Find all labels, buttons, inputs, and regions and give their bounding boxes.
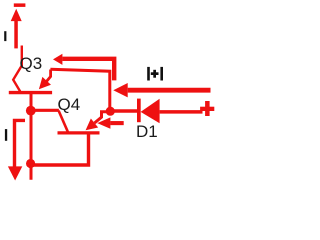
label D1	[136, 123, 158, 140]
current arrow I (up, top-left)	[11, 9, 22, 49]
transistor Q4 collector diagonal	[59, 111, 69, 133]
wire: Q3 collector lead to top	[13, 46, 22, 92]
transistor Q3 emitter (arrow into base)	[39, 70, 51, 90]
wire: node C to diode	[110, 109, 137, 113]
label I (bottom, current label)	[5, 129, 7, 141]
node A (junction dot Q3 base)	[26, 106, 36, 116]
transistor Q4 emitter (arrow into base)	[86, 112, 111, 130]
current arrow I (down, bottom-left)	[8, 120, 25, 180]
current arrow (thick, toward Q3 emitter)	[53, 54, 114, 81]
wire: left rail (Q3 base down to bottom)	[30, 94, 33, 180]
wire: Q4 base lead and bottom wire to node B	[31, 134, 89, 165]
+ terminal	[200, 101, 214, 116]
wire: node A to Q4 collector	[31, 109, 59, 112]
node B (junction dot bottom rail)	[26, 159, 35, 168]
diode D1 triangle	[141, 99, 160, 123]
label I (top, current label)	[4, 31, 6, 41]
current arrow I+I (from right)	[113, 83, 210, 97]
label I+I (current label)	[147, 67, 150, 81]
supply bar (top rail tick)	[14, 3, 26, 7]
wire: Q3 emitter feed from node C (thin wire)	[50, 69, 109, 111]
transistor Q3 base bar	[9, 91, 52, 94]
node C (junction dot diode/Q4)	[106, 107, 115, 116]
transistor Q4 base bar	[58, 131, 100, 134]
wire: diode to + terminal	[160, 110, 203, 114]
current arrow (small, into Q4 emitter)	[97, 117, 123, 128]
label Q3	[20, 55, 43, 72]
label Q4	[58, 96, 81, 113]
diode D1 cathode bar	[137, 99, 141, 123]
